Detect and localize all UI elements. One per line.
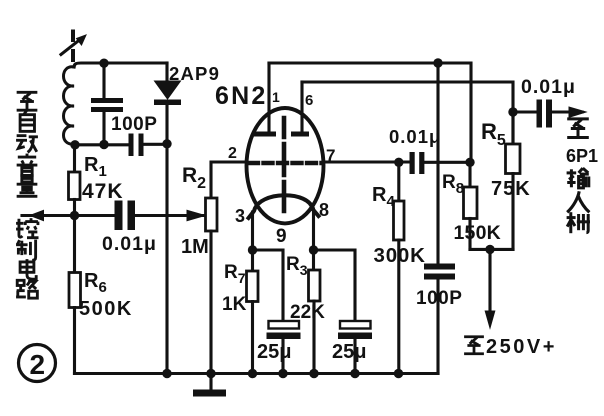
capacitor C 25u (cathode 2) [338, 321, 372, 374]
svg-text:1K: 1K [222, 294, 247, 315]
hanzi dian [20, 259, 36, 279]
node diode cathode [162, 139, 171, 148]
svg-text:R1: R1 [84, 154, 107, 180]
node R2 bottom rail [206, 369, 215, 378]
wire pin3 lead [251, 212, 254, 271]
capacitor series (tank to diode) [129, 134, 168, 157]
capacitor 0.01u (AVC) [115, 201, 204, 231]
svg-text:R2: R2 [182, 164, 206, 192]
wire AVC line [22, 214, 115, 217]
svg-text:R6: R6 [84, 270, 107, 296]
tube anode plate (pin 6) [291, 82, 309, 137]
tube V1 6N2 envelope [247, 108, 324, 223]
svg-text:500K: 500K [79, 298, 133, 320]
arrow output to 6P1 grid [569, 107, 586, 117]
wire top rail (pin1 anode) [269, 63, 471, 163]
svg-text:22K: 22K [290, 302, 325, 323]
resistor R1 47K [69, 172, 81, 200]
svg-text:1: 1 [272, 89, 280, 105]
resistor R8 150K [468, 162, 471, 187]
hanzi shu [567, 168, 589, 188]
svg-text:6N2: 6N2 [215, 82, 267, 110]
hanzi zhi (to 6P1) [567, 119, 589, 138]
svg-text:100P: 100P [416, 288, 462, 309]
wire pin2 to R2 [211, 162, 247, 198]
svg-text:100P: 100P [111, 114, 157, 135]
svg-text:25μ: 25μ [332, 341, 366, 363]
resistor R7 1K [247, 271, 259, 302]
tube grid dashed line [249, 161, 322, 165]
svg-text:8: 8 [319, 200, 329, 220]
svg-text:0.01μ: 0.01μ [521, 76, 576, 98]
resistor R4 300K [397, 162, 400, 201]
wire to 250V with arrow [488, 249, 491, 313]
svg-text:2AP9: 2AP9 [169, 63, 220, 84]
svg-text:150K: 150K [454, 222, 501, 244]
inductor L1 (tuned coil with adjustable core) [61, 32, 86, 145]
svg-text:R4: R4 [372, 184, 395, 210]
node B+ [485, 245, 494, 254]
resistor R6 500K [69, 273, 81, 308]
wire tank top [74, 63, 167, 67]
hanzi shan [567, 212, 590, 233]
svg-text:75K: 75K [491, 178, 531, 200]
ground [193, 374, 226, 397]
node pin3 [248, 245, 257, 254]
svg-text:2: 2 [228, 145, 237, 162]
svg-text:6: 6 [305, 92, 313, 109]
figure circle [19, 345, 56, 382]
arrow wiper into R2 [187, 210, 205, 220]
bottom rail nodes [248, 369, 257, 378]
node pin8 [309, 245, 318, 254]
hanzi zhi4 [16, 240, 36, 261]
node R8 top [465, 158, 474, 167]
svg-text:6P1: 6P1 [566, 146, 598, 166]
node 100P stem [99, 140, 108, 149]
svg-text:3: 3 [235, 206, 245, 226]
hanzi zhi (to 250V) [464, 337, 484, 354]
svg-text:1M: 1M [181, 236, 209, 258]
svg-text:R8: R8 [442, 172, 464, 197]
resistor R3 22K [309, 270, 321, 301]
svg-text:250V+: 250V+ [486, 336, 557, 358]
svg-text:47K: 47K [82, 180, 124, 203]
hanzi ru [567, 191, 589, 212]
wire pin7 [324, 160, 410, 163]
hanzi zhi (to AVC) [17, 92, 38, 110]
capacitor 0.01u (interstage) [410, 152, 471, 174]
node junction tank-top / C-100P [99, 59, 108, 68]
node coil bottom [70, 140, 79, 149]
tube shield dashed line (pin 9) [282, 118, 287, 211]
resistor R1 leads [73, 145, 76, 172]
tube cathode arc [249, 195, 319, 218]
wire tank bottom row [75, 143, 129, 146]
svg-text:R3: R3 [286, 254, 308, 278]
arrow to AVC (left) [30, 210, 44, 220]
svg-text:9: 9 [276, 226, 287, 247]
node output [508, 107, 517, 116]
tube anode plate (pin 1) [254, 63, 276, 137]
wire pin6 rail [302, 82, 513, 144]
diode D1 2AP9 [154, 63, 181, 374]
svg-text:0.01μ: 0.01μ [389, 126, 441, 147]
node top rail / 100P bypass [433, 58, 442, 67]
capacitor 100P (tank) [91, 63, 123, 145]
capacitor C 25u (cathode 1) [267, 321, 301, 374]
hanzi liang [17, 176, 38, 197]
resistor R6 leads [73, 216, 76, 273]
node diode bottom rail [162, 369, 171, 378]
hanzi yin [17, 154, 38, 176]
wire B+ rail [470, 248, 513, 251]
svg-text:25μ: 25μ [257, 341, 291, 363]
capacitor 100P (bypass) [424, 63, 455, 374]
hanzi lu [16, 280, 37, 298]
wire bottom ground rail [75, 372, 439, 375]
node R1/R6 junction [70, 211, 79, 220]
hanzi kong [16, 218, 38, 238]
svg-text:2: 2 [30, 349, 46, 380]
wire pin8 to C 25u [314, 250, 356, 321]
svg-text:R7: R7 [224, 262, 246, 286]
capacitor 0.01u (output) [513, 100, 582, 128]
wire pin8 lead [312, 209, 315, 270]
svg-text:R5: R5 [481, 119, 506, 149]
wire pin3 to C 25u [253, 250, 284, 321]
node pin7 / R4 [394, 158, 403, 167]
svg-text:300K: 300K [374, 244, 426, 267]
resistor R2 1M potentiometer [206, 198, 218, 231]
resistor R5 75K [511, 112, 514, 144]
hanzi zi (auto) [20, 110, 34, 131]
svg-text:0.01μ: 0.01μ [102, 233, 157, 255]
svg-text:7: 7 [326, 146, 335, 165]
hanzi dong [16, 136, 38, 153]
